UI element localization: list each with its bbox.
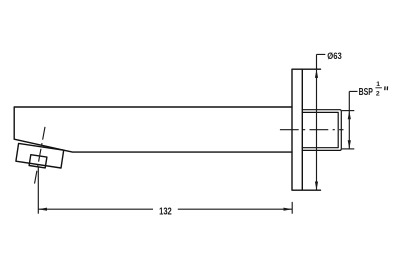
arrow Ø63 bottom	[315, 182, 318, 191]
svg-text:Ø63: Ø63	[327, 51, 342, 61]
wall flange plate	[292, 69, 321, 190]
nipple centerline (dash-dot)	[280, 129, 344, 131]
dim Ø63: dimension line with leader	[317, 54, 326, 190]
dim 132: dimension line	[38, 208, 292, 210]
arrow BSP bottom	[348, 140, 351, 149]
threaded nipple thread lines	[302, 112, 338, 147]
spout body outline	[14, 107, 292, 152]
svg-text:1: 1	[376, 81, 380, 88]
inch double-prime mark	[385, 86, 388, 90]
dim 132: right extension line	[291, 202, 293, 214]
dim 132: left extension line	[37, 168, 39, 214]
arrow Ø63 top	[315, 69, 318, 78]
svg-text:2: 2	[376, 91, 380, 98]
aerator centerline (dash-dot)	[34, 127, 45, 187]
arrow BSP top	[348, 111, 351, 120]
dim BSP: top extension line	[342, 110, 355, 112]
svg-text:132: 132	[159, 206, 172, 217]
aerator outlet box	[29, 155, 47, 168]
dim BSP: bottom extension line	[342, 148, 355, 150]
aerator housing (tilted)	[16, 143, 64, 168]
threaded nipple outer profile	[302, 110, 341, 151]
svg-text:BSP: BSP	[359, 87, 373, 98]
arrow 132 right	[284, 208, 293, 211]
dim BSP: dimension line with leader	[349, 91, 357, 148]
arrow 132 left	[38, 208, 47, 211]
